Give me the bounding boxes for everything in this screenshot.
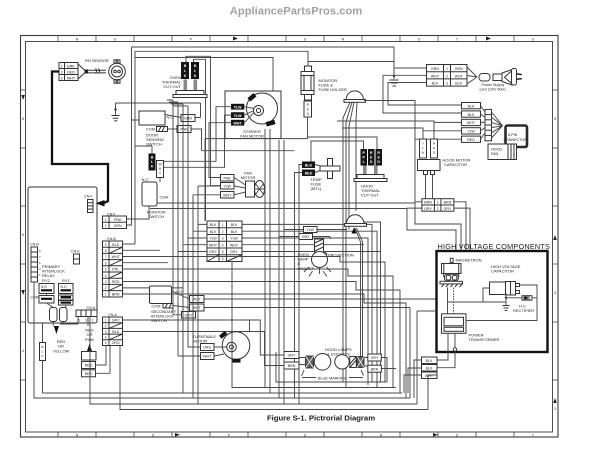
svg-text:HOOD: HOOD — [491, 148, 502, 152]
svg-text:YLW: YLW — [306, 228, 314, 232]
svg-text:5: 5 — [554, 291, 556, 295]
svg-text:R: R — [377, 151, 380, 155]
svg-text:CN-B: CN-B — [107, 237, 116, 241]
svg-text:BLK: BLK — [426, 359, 433, 363]
svg-text:AppliancePartsPros.com: AppliancePartsPros.com — [230, 6, 362, 18]
svg-text:5: 5 — [105, 268, 107, 272]
svg-text:1: 1 — [61, 64, 63, 68]
svg-text:RED: RED — [85, 372, 93, 376]
svg-text:1: 1 — [105, 318, 107, 322]
svg-text:2: 2 — [105, 286, 107, 290]
svg-text:RED: RED — [85, 364, 93, 368]
svg-text:PNK: PNK — [224, 177, 232, 181]
svg-text:GRY: GRY — [424, 207, 432, 211]
svg-text:ORG: ORG — [112, 341, 120, 345]
svg-text:5: 5 — [105, 341, 107, 345]
svg-text:4: 4 — [105, 336, 107, 340]
svg-text:WHT: WHT — [431, 74, 440, 78]
svg-text:RECTIFIER: RECTIFIER — [513, 308, 534, 313]
svg-text:WHT: WHT — [230, 243, 239, 247]
svg-text:N.O: N.O — [61, 285, 67, 289]
svg-text:RY1: RY1 — [62, 278, 70, 283]
svg-text:N.C.: N.C. — [142, 178, 150, 182]
svg-text:CAPACITOR: CAPACITOR — [444, 162, 467, 167]
svg-text:CN-F: CN-F — [84, 195, 93, 199]
svg-text:8: 8 — [105, 249, 107, 253]
svg-text:R: R — [370, 151, 373, 155]
svg-text:YLW: YLW — [209, 237, 217, 241]
svg-text:T: T — [532, 433, 534, 437]
svg-text:GRY: GRY — [185, 314, 193, 318]
svg-text:E: E — [433, 146, 435, 150]
svg-text:COM: COM — [160, 196, 169, 200]
svg-text:YLW: YLW — [230, 237, 238, 241]
svg-text:S: S — [418, 38, 420, 42]
svg-text:RY2: RY2 — [42, 278, 50, 283]
svg-text:BLK: BLK — [231, 230, 238, 234]
svg-text:MOTOR: MOTOR — [241, 175, 256, 180]
svg-text:BLK: BLK — [455, 82, 462, 86]
svg-text:6: 6 — [222, 257, 224, 261]
svg-text:4: 4 — [105, 274, 107, 278]
svg-text:BLK: BLK — [210, 230, 217, 234]
svg-text:3: 3 — [105, 280, 107, 284]
svg-text:COM: COM — [31, 296, 39, 300]
svg-text:WHT: WHT — [112, 255, 121, 259]
svg-text:BLK: BLK — [112, 243, 119, 247]
svg-text:RED: RED — [467, 138, 475, 142]
svg-text:3: 3 — [222, 237, 224, 241]
svg-text:B: B — [151, 156, 154, 160]
svg-text:CN-E: CN-E — [71, 250, 80, 254]
svg-text:3: 3 — [554, 407, 556, 411]
svg-text:BRN: BRN — [112, 292, 120, 296]
svg-text:6: 6 — [105, 261, 107, 265]
svg-text:K: K — [194, 74, 197, 78]
svg-text:Y: Y — [422, 142, 424, 146]
svg-text:L: L — [42, 350, 44, 354]
svg-text:GRY: GRY — [371, 356, 379, 360]
svg-text:YLW: YLW — [234, 105, 242, 109]
svg-text:B: B — [194, 64, 197, 68]
svg-text:WHT: WHT — [67, 76, 76, 80]
svg-text:CUT OUT: CUT OUT — [361, 193, 379, 198]
svg-text:(MTL): (MTL) — [311, 186, 322, 191]
svg-text:YLW: YLW — [467, 130, 475, 134]
svg-text:K: K — [151, 165, 154, 169]
svg-text:BLK: BLK — [468, 113, 475, 117]
svg-text:GRN: GRN — [431, 67, 439, 71]
svg-text:Power Supply: Power Supply — [482, 83, 505, 87]
svg-text:GRY: GRY — [288, 354, 296, 358]
svg-text:2: 2 — [222, 230, 224, 234]
svg-text:BRN: BRN — [288, 364, 296, 368]
svg-text:BRK: BRK — [67, 64, 75, 68]
svg-text:SOCKET: SOCKET — [298, 266, 315, 271]
svg-text:WHT: WHT — [223, 194, 232, 198]
svg-text:GRN: GRN — [455, 67, 463, 71]
svg-text:RED: RED — [112, 280, 120, 284]
svg-text:D: D — [370, 160, 373, 164]
svg-text:B: B — [184, 64, 187, 68]
svg-text:RH SENSOR: RH SENSOR — [85, 58, 109, 63]
svg-text:FAN MOTOR: FAN MOTOR — [240, 134, 264, 139]
svg-text:2: 2 — [446, 74, 448, 78]
svg-text:3: 3 — [105, 330, 107, 334]
svg-text:HIGH VOLTAGE COMPONENTS: HIGH VOLTAGE COMPONENTS — [438, 242, 551, 251]
svg-text:BRN: BRN — [371, 367, 379, 371]
svg-text:BLK: BLK — [112, 330, 119, 334]
svg-text:8: 8 — [554, 117, 556, 121]
svg-text:8: 8 — [22, 117, 24, 121]
svg-text:5: 5 — [222, 250, 224, 254]
svg-text:WHT: WHT — [455, 74, 464, 78]
svg-text:WHT: WHT — [234, 121, 243, 125]
svg-text:WHT: WHT — [209, 243, 218, 247]
svg-text:BLK: BLK — [231, 223, 238, 227]
svg-text:3: 3 — [61, 76, 63, 80]
svg-text:GRY: GRY — [230, 250, 238, 254]
svg-text:CN-A: CN-A — [108, 313, 117, 317]
svg-text:1: 1 — [105, 218, 107, 222]
svg-text:3: 3 — [85, 319, 87, 323]
svg-text:E: E — [307, 108, 309, 112]
svg-text:ORG: ORG — [203, 346, 211, 350]
svg-text:1: 1 — [105, 292, 107, 296]
svg-text:L: L — [422, 146, 424, 150]
svg-text:2: 2 — [105, 224, 107, 228]
svg-text:1: 1 — [446, 67, 448, 71]
svg-text:CUT-OUT: CUT-OUT — [163, 84, 181, 89]
svg-text:BLK: BLK — [426, 367, 433, 371]
svg-text:MOTOR: MOTOR — [193, 339, 208, 344]
svg-text:S: S — [456, 433, 458, 437]
svg-text:GRY: GRY — [302, 235, 310, 239]
svg-text:1: 1 — [92, 319, 94, 323]
svg-text:3: 3 — [446, 82, 448, 86]
svg-text:BLK: BLK — [210, 223, 217, 227]
svg-text:N.O: N.O — [41, 285, 47, 289]
svg-text:BLUE MARKING: BLUE MARKING — [318, 377, 347, 381]
svg-text:BLK: BLK — [468, 104, 475, 108]
svg-text:2: 2 — [437, 207, 439, 211]
svg-text:1: 1 — [437, 201, 439, 205]
svg-text:B: B — [41, 345, 43, 349]
svg-text:SWITCH: SWITCH — [148, 214, 164, 219]
svg-text:cord 120V 60Hz: cord 120V 60Hz — [480, 88, 507, 92]
svg-text:YLW: YLW — [234, 114, 242, 118]
svg-text:BLK: BLK — [432, 82, 439, 86]
svg-text:SWITCH: SWITCH — [151, 318, 167, 323]
svg-text:CN-B: CN-B — [30, 243, 39, 247]
svg-text:GRY: GRY — [209, 250, 217, 254]
svg-text:4: 4 — [22, 349, 24, 353]
svg-text:W: W — [422, 151, 425, 155]
svg-text:FAN: FAN — [491, 152, 499, 156]
svg-text:PNK: PNK — [180, 128, 188, 132]
svg-text:D: D — [377, 160, 380, 164]
svg-text:BRN: BRN — [444, 201, 452, 205]
svg-text:PNK: PNK — [114, 218, 122, 222]
svg-text:FUSE HOLDER: FUSE HOLDER — [319, 87, 348, 92]
svg-text:CONNECTOR: CONNECTOR — [504, 138, 527, 142]
svg-text:CAPACITOR: CAPACITOR — [491, 269, 514, 274]
svg-text:YELLOW: YELLOW — [53, 348, 70, 353]
svg-text:6: 6 — [22, 233, 24, 237]
svg-text:Figure S-1. Pictrorial Diagram: Figure S-1. Pictrorial Diagram — [267, 414, 375, 423]
svg-text:WHT: WHT — [193, 298, 202, 302]
svg-text:MAGNETRON: MAGNETRON — [456, 258, 482, 263]
svg-text:WHT: WHT — [467, 121, 476, 125]
svg-text:BRN: BRN — [424, 201, 432, 205]
svg-text:2: 2 — [61, 70, 63, 74]
svg-text:K: K — [184, 74, 187, 78]
svg-text:COM: COM — [152, 305, 161, 309]
svg-text:P: P — [190, 38, 192, 42]
svg-text:PPL: PPL — [112, 268, 119, 272]
svg-text:T: T — [159, 172, 161, 176]
svg-text:RED: RED — [67, 70, 75, 74]
svg-text:COM: COM — [146, 128, 155, 132]
svg-text:WHT: WHT — [193, 306, 202, 310]
svg-text:GRN: GRN — [114, 224, 122, 228]
svg-text:YLW: YLW — [223, 185, 231, 189]
svg-text:4: 4 — [222, 243, 224, 247]
svg-text:RED: RED — [305, 172, 313, 176]
svg-text:7: 7 — [105, 255, 107, 259]
svg-text:9: 9 — [105, 243, 107, 247]
svg-text:6-PIN: 6-PIN — [508, 133, 518, 137]
svg-text:P: P — [228, 433, 230, 437]
svg-text:T: T — [456, 38, 458, 42]
svg-text:WHT: WHT — [203, 355, 212, 359]
svg-text:2: 2 — [105, 324, 107, 328]
svg-text:CN-A: CN-A — [87, 306, 96, 310]
svg-text:GRY: GRY — [444, 207, 452, 211]
svg-text:BLK: BLK — [305, 164, 313, 168]
svg-text:1: 1 — [222, 223, 224, 227]
svg-text:TRANSFORMER: TRANSFORMER — [469, 337, 500, 342]
svg-text:GRY: GRY — [112, 318, 120, 322]
